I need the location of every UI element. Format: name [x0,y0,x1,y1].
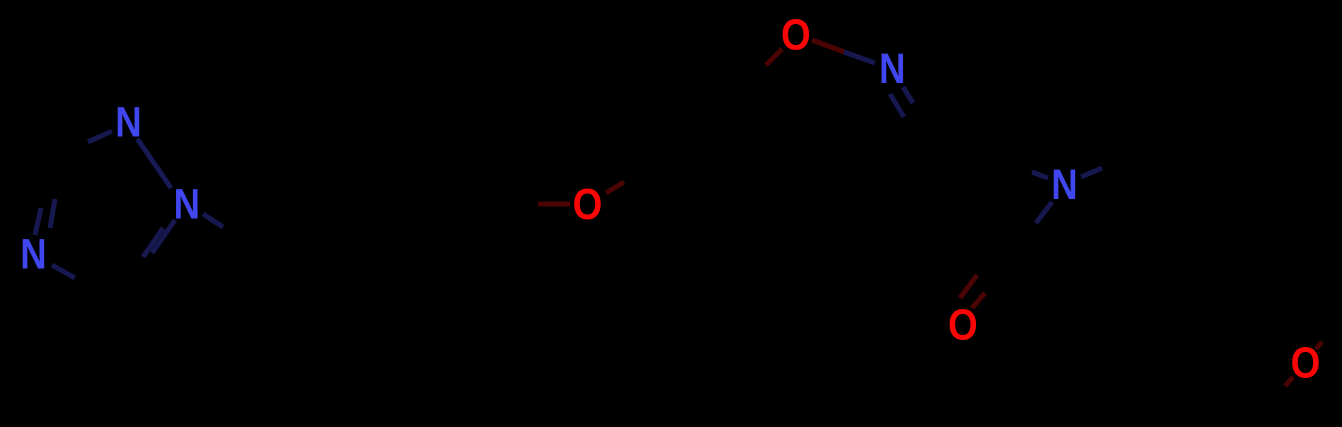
svg-text:O: O [948,300,978,349]
bond O-CH2 ether right [606,161,660,193]
isoxazole ring C5-O1 [737,49,782,95]
svg-text:N: N [115,99,141,146]
macrocycle bottom chain [912,262,1007,291]
bond N-C carbonyl [1007,202,1052,262]
atom N amide [1051,161,1077,208]
half-bond stub O pyran up-right [1316,342,1322,349]
half-bond stub N2 triazole to C3 [88,131,112,142]
half-bond stub N2 isoxazole inner double to C3 [890,94,904,117]
atom O pyran [1291,338,1321,387]
atom N4 triazole left [20,231,46,278]
half-bond stub O ether to right CH2 [606,182,624,193]
half-bond stub N1 triazole to chain [203,214,223,227]
half-bond stub N4 triazole to C3 [35,208,41,235]
chain CH2 to isoxazole C5 [660,95,737,161]
isoxazole C3-C4 [848,137,934,172]
bond CH2-N amide [1000,160,1048,178]
half-bond stub O1 isoxazole to N2 [812,40,844,52]
half-bond stub N amide to CH2 right [1081,168,1102,177]
bond N1-N2 triazole (blue, faint raw) [138,139,172,188]
svg-text:O: O [781,10,811,59]
atom N2 triazole top [115,99,141,146]
svg-text:O: O [1291,338,1321,387]
bond N4-C5 triazole [52,265,117,301]
half-bond stub O ether to left CH2 [538,202,570,207]
bond CH2-O ether left [488,204,566,205]
atom O ether [573,180,603,229]
bond N1-phenyl [203,214,262,245]
half-bond stub N amide to CH2 left [1032,172,1048,178]
bond N-CH2 right chain [1081,151,1140,177]
isoxazole N2=C3 double [903,87,934,137]
bond C5=N1 triazole double [117,220,175,301]
svg-text:N: N [20,231,46,278]
bond C3-N2 triazole [48,131,110,161]
half-bond stub N4 triazole inner double to C3 [50,199,55,228]
atom N2 isoxazole [879,45,905,92]
half-bond stub N2 isoxazole to C3 [903,87,913,103]
chain to pyran ring [1140,151,1216,195]
atom O1 isoxazole [781,10,811,59]
half-bond stub N1 triazole to C5 [152,220,175,253]
half-bond stub O1 isoxazole to C5 [766,49,782,65]
bond C=O carbonyl double [972,262,1007,308]
svg-text:O: O [573,180,603,229]
bond C3-CH2 right [934,137,1000,160]
isoxazole C4=C5 double [737,95,848,172]
half-bond stub O pyran down-left [1285,377,1293,386]
atom N1 triazole middle [174,181,200,228]
half-bond stub O carbonyl double line b [960,275,977,298]
isoxazole O1-N2 [812,40,875,63]
pyran ring [1216,280,1264,410]
bond C3=N4 triazole double [35,161,48,233]
atom O carbonyl [948,300,978,349]
half-bond stub N2 isoxazole to O1 [844,52,875,63]
half-bond stub O carbonyl double line a [972,293,985,308]
svg-text:N: N [879,45,905,92]
svg-text:N: N [174,181,200,228]
half-bond stub N1 triazole inner double to C5 [143,228,163,257]
half-bond stub N4 triazole to C5 [52,265,75,278]
half-bond stub N amide to C carbonyl [1036,202,1052,223]
bond phenyl-CH2 [410,205,488,245]
benzene ring [259,165,265,245]
svg-text:N: N [1051,161,1077,208]
